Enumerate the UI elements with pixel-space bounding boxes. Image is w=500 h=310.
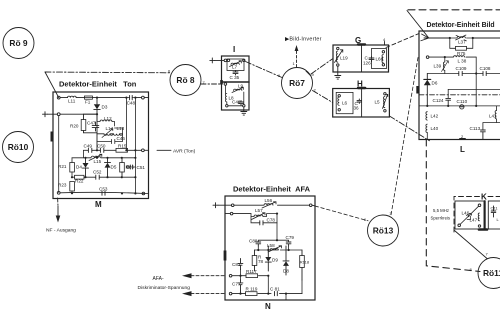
- node AFA input2: [225, 212, 251, 215]
- wire bild top rail: [424, 37, 500, 39]
- svg-text:L42: L42: [431, 113, 439, 118]
- svg-text:L37: L37: [458, 40, 466, 45]
- svg-text:C124: C124: [433, 98, 444, 103]
- resistor R15: [116, 143, 128, 152]
- svg-text:C46: C46: [117, 136, 126, 141]
- svg-text:R117: R117: [246, 269, 257, 274]
- svg-text:Rö10: Rö10: [8, 142, 29, 152]
- svg-text:R21: R21: [58, 164, 67, 169]
- wire box K to Rö11 pin7: [455, 231, 488, 259]
- capacitor C36 in H: [354, 99, 362, 111]
- wire box G to box L corner: [386, 34, 419, 48]
- wire Rö7 pin2 to box H: [313, 91, 333, 103]
- capacitor C50: [97, 144, 106, 153]
- inductor L42: [426, 112, 439, 120]
- wire AFA dash row1: [229, 270, 269, 281]
- svg-text:C51: C51: [137, 165, 146, 170]
- label Bild-Inverter with arrow above Rö7: [285, 37, 322, 68]
- svg-text:C110: C110: [457, 99, 468, 104]
- svg-text:C48: C48: [127, 101, 136, 106]
- svg-text:L12: L12: [104, 116, 112, 121]
- svg-text:L60: L60: [376, 57, 384, 62]
- capacitor C126 in G: [363, 49, 387, 69]
- svg-text:C 35: C 35: [230, 75, 240, 80]
- svg-text:D3: D3: [102, 105, 108, 110]
- capacitor C77: [232, 280, 243, 294]
- svg-text:R75: R75: [457, 51, 466, 56]
- diode D3: [94, 98, 108, 115]
- node junction D3 top: [96, 97, 98, 99]
- diode D5: [105, 158, 117, 177]
- svg-text:Diskriminator-Spannung: Diskriminator-Spannung: [138, 285, 191, 291]
- capacitor C79: [277, 235, 294, 246]
- svg-text:C49: C49: [84, 144, 93, 149]
- svg-text:Rö7: Rö7: [289, 78, 305, 88]
- wire bild dash-dot shield: [419, 94, 500, 96]
- capacitor C49: [84, 144, 93, 153]
- inductor coil right K cell: [478, 213, 481, 227]
- svg-text:R15: R15: [118, 143, 127, 148]
- tube Rö11: [470, 252, 500, 289]
- svg-text:C109: C109: [456, 66, 467, 71]
- box H bandfilter: [333, 80, 390, 118]
- node bild row2 terminal: [426, 56, 476, 59]
- wire AFA right column: [301, 250, 303, 256]
- capacitor C113: [470, 123, 500, 140]
- capacitor C46: [97, 134, 125, 144]
- box M Detektor-Einheit Ton: [51, 80, 149, 210]
- svg-text:L39: L39: [434, 64, 442, 69]
- svg-text:C79: C79: [286, 235, 295, 240]
- capacitor C109: [456, 57, 467, 76]
- svg-text:C52: C52: [93, 169, 102, 174]
- inductor L46 L47 in K: [458, 204, 481, 227]
- wire bottom rail: [60, 192, 148, 193]
- resistor R75: [450, 38, 473, 56]
- svg-text:C113: C113: [470, 126, 481, 131]
- wire box I top-right to Rö7 pin6: [246, 62, 283, 78]
- inductor L40: [426, 124, 439, 139]
- wire AFA dash row2: [229, 276, 302, 300]
- capacitor C108: [480, 66, 491, 75]
- resistor R119: [246, 287, 258, 296]
- label AVR (Ton): [157, 149, 196, 155]
- capacitor C53: [99, 186, 108, 195]
- resistor R22: [72, 175, 84, 183]
- capacitor C51: [127, 165, 146, 170]
- capacitor C78: [251, 213, 278, 225]
- node ton input mid +: [43, 112, 98, 117]
- svg-text:C47: C47: [87, 121, 96, 126]
- wire D3 down to coil row: [96, 114, 98, 150]
- node bild pin2: [460, 134, 465, 139]
- svg-text:Detektor-Einheit Ton: Detektor-Einheit Ton: [59, 80, 137, 89]
- inductor L5 in H: [375, 93, 388, 112]
- wire ton top rail: [60, 97, 148, 99]
- resistor R23: [58, 182, 74, 194]
- svg-text:C82: C82: [232, 262, 241, 267]
- tube Rö13: [364, 211, 399, 247]
- svg-text:D5: D5: [111, 165, 117, 170]
- wire mid rail: [72, 176, 135, 178]
- resistor R21: [58, 163, 74, 178]
- svg-text:C88: C88: [249, 239, 258, 244]
- resistor R118: [300, 250, 310, 280]
- wire diagonal into box L top corner: [407, 11, 429, 39]
- svg-text:AFA-: AFA-: [153, 276, 164, 282]
- resistor R117: [246, 269, 258, 278]
- wire Rö7 pin9 to box G: [311, 59, 333, 75]
- svg-text:D8: D8: [283, 269, 289, 274]
- resistor R78: [252, 250, 263, 271]
- node D3 bottom junction: [96, 113, 98, 115]
- svg-text:NF - Ausgang: NF - Ausgang: [46, 228, 76, 234]
- wire dashed top right: [408, 9, 500, 11]
- node AFA input +: [213, 203, 315, 208]
- svg-text:L15: L15: [94, 159, 102, 164]
- svg-text:N: N: [265, 302, 271, 310]
- node terminal right top: [142, 96, 145, 99]
- fuse F1: [85, 96, 93, 104]
- box L Detektor-Einheit Bild: [416, 22, 500, 154]
- diode D4: [76, 158, 89, 177]
- wire R20/C47 loop: [84, 114, 98, 133]
- svg-text:C 81: C 81: [270, 287, 280, 292]
- capacitor C48: [125, 95, 136, 193]
- svg-text:Rö 8: Rö 8: [176, 75, 194, 85]
- capacitor C40: [232, 100, 244, 105]
- tube Rö9: [3, 28, 34, 59]
- svg-text:L40: L40: [431, 126, 439, 131]
- wire AFA box to Rö13 pin6: [315, 206, 368, 221]
- node avr terminal: [142, 149, 145, 152]
- wire AFA row links: [255, 246, 303, 250]
- capacitor C110 trimmer: [457, 99, 468, 109]
- svg-text:Rö11: Rö11: [483, 268, 500, 278]
- svg-text:L56: L56: [265, 198, 273, 203]
- wire ton left column: [58, 116, 60, 193]
- diode D8: [283, 246, 289, 275]
- inductor L58 variable: [258, 243, 288, 252]
- inductor L9 variable: [232, 84, 244, 93]
- wire L15 rail: [72, 157, 135, 159]
- tube Rö7: [278, 61, 317, 99]
- inductor L15 variable: [89, 154, 102, 164]
- inductor L11: [68, 96, 77, 103]
- svg-text:L9: L9: [238, 84, 244, 89]
- wire dash-dot left to Rö8 pin6: [45, 71, 170, 74]
- box G bandfilter: [333, 36, 389, 72]
- svg-text:C77: C77: [232, 282, 241, 287]
- capacitor C82: [232, 259, 243, 270]
- svg-text:Rö 9: Rö 9: [9, 38, 27, 48]
- svg-text:78: 78: [258, 259, 264, 264]
- inductor L6 in H: [336, 92, 353, 113]
- svg-text:R20: R20: [70, 124, 79, 129]
- svg-text:L46: L46: [462, 211, 470, 216]
- box K 5,5MHz Sperrkreis: [431, 193, 500, 233]
- svg-text:Detektor-Einheit AFA: Detektor-Einheit AFA: [233, 185, 311, 194]
- ground below I: [241, 112, 247, 116]
- capacitor C47: [87, 121, 99, 131]
- wire AFA center column: [276, 223, 278, 240]
- node ton input top: [57, 96, 60, 99]
- resistor R20: [70, 114, 86, 133]
- svg-text:L11: L11: [68, 98, 76, 103]
- inductor L12: [97, 114, 115, 126]
- node I input +: [210, 58, 227, 63]
- svg-text:L19: L19: [340, 56, 348, 61]
- wire NF-Ausgang: [46, 198, 76, 234]
- wire bild mid rail: [419, 105, 500, 107]
- inductor L41: [489, 106, 497, 123]
- inductor L57 variable: [251, 208, 277, 220]
- wire box L row2 to Rö13 pin2: [391, 58, 418, 216]
- inductor L8: [225, 85, 234, 104]
- diode D6: [424, 74, 438, 106]
- svg-text:Sperrkreis: Sperrkreis: [431, 216, 451, 221]
- svg-text:H: H: [357, 80, 363, 89]
- capacitor C114 in K right box: [491, 206, 500, 223]
- inductor L39 variable: [434, 57, 449, 73]
- wire box L bottom to Rö11 pin8: [426, 140, 480, 272]
- wire Rö8 pin7 to box I: [201, 83, 222, 85]
- wire diagonal into Ton box corner: [45, 72, 59, 98]
- svg-text:L7: L7: [232, 64, 238, 69]
- capacitor C124: [433, 89, 500, 106]
- svg-text:Detektor-Einheit Bild: Detektor-Einheit Bild: [427, 22, 495, 29]
- svg-text:L13: L13: [117, 126, 125, 131]
- inductor L56 variable: [262, 198, 276, 208]
- diode D9: [265, 246, 278, 271]
- svg-text:G: G: [355, 36, 361, 45]
- capacitor C81: [270, 287, 280, 296]
- inductor L7 variable: [225, 59, 245, 71]
- svg-text:C108: C108: [480, 66, 491, 71]
- inductor L19 in G: [335, 47, 349, 72]
- wire coil row: [97, 128, 123, 134]
- svg-text:R 119: R 119: [246, 287, 258, 292]
- svg-text:L 38: L 38: [458, 58, 467, 63]
- svg-text:L6: L6: [342, 101, 348, 106]
- box N Detektor-Einheit AFA: [224, 185, 315, 310]
- wire I bottom nodes: [226, 92, 245, 112]
- capacitor C52: [93, 169, 102, 179]
- box I bandfilter: [220, 45, 249, 110]
- svg-text:C11: C11: [491, 206, 499, 211]
- wire box H to box L bottom corner: [389, 116, 429, 141]
- svg-text:D4: D4: [76, 165, 82, 170]
- resistor R26: [120, 158, 135, 177]
- svg-text:R118: R118: [300, 260, 310, 265]
- tube Rö8: [168, 65, 206, 96]
- tube Rö10: [3, 132, 34, 163]
- wire avr row: [84, 149, 142, 151]
- svg-text:C53: C53: [99, 186, 108, 191]
- svg-text:K: K: [481, 193, 487, 202]
- svg-text:36: 36: [354, 106, 360, 111]
- svg-text:I: I: [233, 45, 235, 54]
- node junction avr row: [96, 149, 98, 151]
- svg-text:L5: L5: [375, 100, 381, 105]
- svg-text:126: 126: [363, 61, 371, 66]
- svg-text:F1: F1: [85, 99, 91, 104]
- inductor L60 in G: [376, 51, 385, 66]
- svg-text:▶Bild-Inverter: ▶Bild-Inverter: [285, 37, 322, 43]
- svg-text:R23: R23: [58, 183, 67, 188]
- node I lower input: [224, 83, 227, 86]
- wire bild row2b: [427, 57, 500, 106]
- label AFA-Diskriminator-Spannung with arrows: [138, 273, 226, 296]
- inductor L13: [102, 126, 125, 138]
- svg-text:C50: C50: [97, 144, 106, 149]
- svg-text:C78: C78: [267, 218, 276, 223]
- inductor L37 variable: [450, 35, 473, 45]
- inductor L14: [104, 126, 114, 135]
- svg-text:AVR (Ton): AVR (Ton): [173, 149, 196, 155]
- svg-text:D6: D6: [432, 81, 438, 86]
- svg-text:5,5 MHz: 5,5 MHz: [433, 208, 449, 213]
- inductor L38: [454, 56, 467, 64]
- svg-text:Rö13: Rö13: [373, 226, 394, 236]
- capacitor C35: [230, 71, 240, 81]
- svg-text:L57: L57: [255, 208, 263, 213]
- svg-text:D9: D9: [272, 258, 278, 263]
- capacitor C88: [249, 239, 277, 246]
- svg-text:M: M: [95, 200, 102, 209]
- svg-text:R22: R22: [75, 179, 84, 184]
- svg-text:L: L: [460, 145, 465, 154]
- ground below G: [335, 72, 341, 79]
